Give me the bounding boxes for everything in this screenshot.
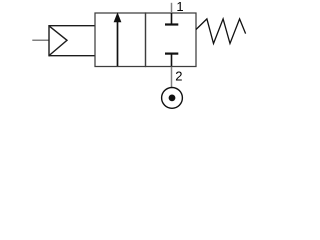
flow arrow in left box — [114, 13, 121, 66]
plug symbol circle — [162, 88, 183, 109]
port 1 stub wire — [171, 3, 173, 13]
blocked port symbol (bottom T) — [165, 54, 178, 67]
valve body position box left — [95, 13, 146, 67]
plug symbol center dot — [169, 95, 176, 102]
svg-text:2: 2 — [175, 68, 182, 83]
svg-text:1: 1 — [176, 0, 183, 14]
pneumatic pilot actuator (triangle in box) — [49, 25, 95, 56]
port 2 stub wire — [171, 67, 173, 88]
return spring — [196, 19, 246, 44]
valve body position box right — [146, 13, 197, 67]
blocked port symbol (top T) — [165, 13, 178, 25]
wire: pilot lead line — [32, 39, 49, 41]
